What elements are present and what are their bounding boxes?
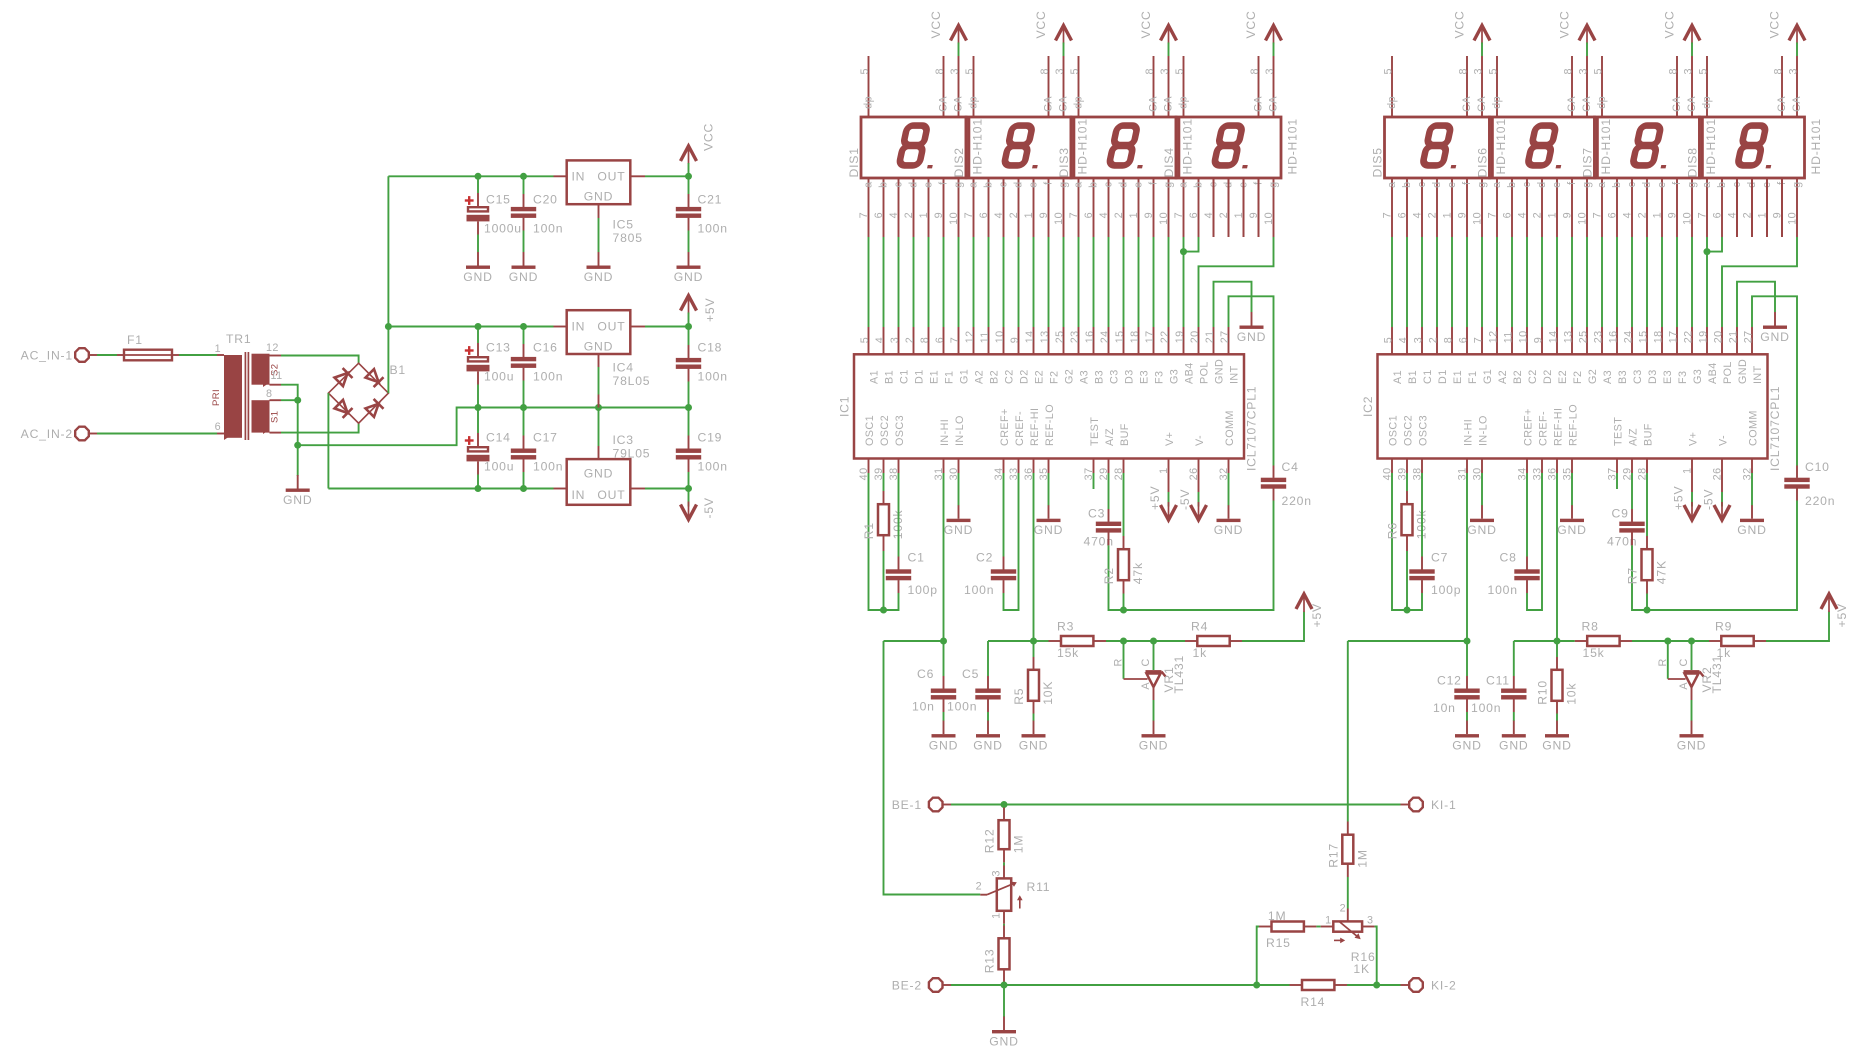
wire — [1513, 641, 1515, 676]
wire — [598, 218, 600, 252]
svg-text:GND: GND — [283, 493, 312, 507]
svg-text:6: 6 — [873, 212, 885, 218]
svg-text:10: 10 — [1577, 212, 1589, 225]
wire — [1692, 640, 1710, 642]
wire — [898, 473, 900, 557]
svg-text:A2: A2 — [973, 370, 985, 384]
svg-text:16: 16 — [1084, 330, 1096, 343]
resistor R14 — [1302, 980, 1334, 990]
junction — [520, 485, 527, 492]
svg-text:3: 3 — [1578, 68, 1590, 74]
svg-text:AC_IN-1: AC_IN-1 — [21, 349, 73, 363]
svg-text:TEST: TEST — [1089, 417, 1101, 446]
junction — [685, 323, 692, 330]
svg-text:g: g — [1163, 182, 1175, 188]
wire — [1737, 282, 1775, 327]
wire segment column — [928, 237, 930, 327]
svg-text:POL: POL — [1198, 361, 1210, 384]
wire — [1153, 700, 1155, 721]
svg-text:GND: GND — [989, 1035, 1018, 1049]
VCC symbol — [1768, 10, 1806, 43]
svg-text:a: a — [1701, 182, 1713, 188]
svg-text:f: f — [1148, 181, 1160, 185]
wire — [281, 423, 359, 432]
VCC symbol — [1453, 10, 1491, 43]
svg-text:b: b — [1088, 182, 1100, 188]
svg-text:BUF: BUF — [1642, 423, 1654, 446]
svg-text:R: R — [1657, 658, 1669, 666]
ground — [944, 505, 973, 537]
svg-text:D3: D3 — [1647, 369, 1659, 384]
capacitor C13 (polarized) — [465, 341, 515, 384]
junction — [475, 173, 482, 180]
svg-text:S1: S1 — [270, 411, 281, 423]
wire segment column — [1616, 237, 1618, 327]
svg-text:220n: 220n — [1282, 494, 1312, 508]
wire — [1466, 473, 1468, 641]
svg-text:6: 6 — [1712, 212, 1724, 218]
svg-text:E1: E1 — [928, 370, 940, 384]
capacitor C21 — [676, 193, 728, 236]
wire — [1781, 178, 1783, 237]
display DIS2 HD-H101 — [952, 56, 1090, 237]
svg-text:HD-H101: HD-H101 — [1076, 118, 1090, 174]
svg-text:1000u: 1000u — [484, 222, 522, 236]
voltage regulator IC4 78L05 — [567, 310, 651, 388]
junction — [685, 173, 692, 180]
svg-text:AB4: AB4 — [1707, 362, 1719, 384]
wire GND mid rail — [457, 407, 689, 409]
svg-text:CA: CA — [938, 96, 950, 112]
ground — [929, 721, 958, 753]
svg-text:POL: POL — [1722, 361, 1734, 384]
svg-text:GND: GND — [1452, 739, 1481, 753]
svg-text:5: 5 — [859, 337, 871, 343]
wire VCC rail — [388, 175, 553, 177]
svg-text:6: 6 — [934, 337, 946, 343]
svg-text:PRI: PRI — [211, 389, 222, 406]
svg-text:4: 4 — [1398, 337, 1410, 343]
wire — [883, 473, 885, 491]
wire segment column — [1646, 237, 1648, 327]
junction — [1030, 638, 1037, 645]
svg-text:OUT: OUT — [597, 320, 625, 334]
svg-text:9: 9 — [1533, 337, 1545, 343]
svg-text:R1: R1 — [862, 522, 876, 539]
svg-text:1: 1 — [1128, 212, 1140, 218]
wire segment column — [1048, 237, 1050, 327]
svg-text:CA: CA — [1461, 96, 1473, 112]
capacitor C15 (polarized) — [465, 193, 522, 236]
svg-text:C19: C19 — [698, 431, 723, 445]
svg-text:e: e — [1028, 182, 1040, 188]
display DIS1 HD-H101 — [847, 56, 985, 237]
wire — [1033, 473, 1035, 641]
wire — [645, 488, 689, 490]
svg-text:21: 21 — [1204, 330, 1216, 343]
junction — [1404, 607, 1411, 614]
svg-text:e: e — [923, 182, 935, 188]
wire — [1481, 473, 1483, 506]
svg-text:10K: 10K — [1041, 681, 1055, 705]
capacitor C17 — [511, 431, 564, 474]
svg-text:C7: C7 — [1431, 551, 1448, 565]
svg-text:9: 9 — [1009, 337, 1021, 343]
junction — [1150, 638, 1157, 645]
wire segment column — [1541, 237, 1543, 327]
svg-text:b: b — [878, 182, 890, 188]
wire — [1736, 178, 1738, 237]
svg-text:c: c — [998, 181, 1010, 187]
junction — [685, 485, 692, 492]
svg-text:18: 18 — [1129, 330, 1141, 343]
svg-text:C5: C5 — [962, 667, 979, 681]
wire — [987, 712, 989, 721]
svg-text:g: g — [1581, 182, 1593, 188]
svg-text:d: d — [1013, 182, 1025, 188]
wire — [1406, 473, 1408, 491]
wire — [688, 231, 690, 253]
svg-text:D1: D1 — [913, 369, 925, 384]
svg-text:INT: INT — [1228, 365, 1240, 384]
wire bridge - output — [327, 393, 329, 488]
wire — [281, 356, 359, 364]
svg-text:b: b — [1401, 182, 1413, 188]
svg-text:C9: C9 — [1612, 507, 1629, 521]
svg-text:A: A — [1140, 682, 1152, 690]
wire segment column — [973, 237, 975, 327]
wire — [1557, 640, 1575, 642]
svg-text:8: 8 — [1668, 68, 1680, 74]
diode (bridge) — [366, 404, 379, 417]
svg-text:HD-H101: HD-H101 — [1599, 118, 1613, 174]
svg-text:IN-LO: IN-LO — [1477, 415, 1489, 446]
wire segment column — [868, 237, 870, 327]
junction — [1120, 638, 1127, 645]
svg-text:2: 2 — [1113, 212, 1125, 218]
svg-text:F3: F3 — [1677, 371, 1689, 384]
svg-text:2: 2 — [903, 212, 915, 218]
svg-text:CA: CA — [1776, 96, 1788, 112]
svg-text:IN: IN — [572, 320, 586, 334]
svg-text:A1: A1 — [1392, 370, 1404, 384]
wire — [1003, 985, 1005, 1017]
wire — [943, 641, 945, 676]
wire — [477, 385, 479, 408]
svg-text:DIS3: DIS3 — [1057, 147, 1071, 177]
wire segment column — [1108, 237, 1110, 327]
svg-text:IC5: IC5 — [613, 218, 634, 232]
svg-text:R3: R3 — [1057, 620, 1074, 634]
svg-text:15k: 15k — [1057, 646, 1079, 660]
wire — [1556, 473, 1558, 641]
svg-text:+5V: +5V — [1148, 486, 1162, 510]
svg-text:C12: C12 — [1437, 674, 1462, 688]
svg-text:100n: 100n — [533, 370, 563, 384]
ground — [989, 1017, 1018, 1049]
svg-text:3: 3 — [1788, 68, 1800, 74]
svg-text:C21: C21 — [698, 193, 723, 207]
junction — [1001, 982, 1008, 989]
+5V symbol — [1821, 594, 1849, 627]
svg-text:f: f — [1461, 181, 1473, 185]
svg-text:C3: C3 — [1088, 507, 1105, 521]
wire — [1766, 612, 1829, 642]
wire — [1168, 492, 1170, 507]
svg-text:GND: GND — [1542, 739, 1571, 753]
svg-text:1: 1 — [1682, 468, 1694, 474]
svg-text:d: d — [1536, 182, 1548, 188]
wire — [688, 472, 690, 489]
svg-text:VCC: VCC — [929, 10, 943, 38]
svg-text:GND: GND — [1467, 523, 1496, 537]
svg-text:9: 9 — [1562, 212, 1574, 218]
svg-text:10n: 10n — [912, 700, 935, 714]
resistor R5 — [1012, 670, 1055, 705]
svg-text:10: 10 — [948, 212, 960, 225]
svg-text:9: 9 — [1143, 212, 1155, 218]
svg-text:IN-HI: IN-HI — [939, 419, 951, 446]
svg-text:D2: D2 — [1542, 369, 1554, 384]
junction — [1001, 801, 1008, 808]
wire — [1033, 641, 1035, 657]
svg-text:A3: A3 — [1078, 370, 1090, 384]
svg-text:-5V: -5V — [1178, 489, 1192, 510]
wire — [1124, 501, 1274, 611]
wire segment column — [1571, 237, 1573, 327]
svg-text:21: 21 — [1728, 330, 1740, 343]
svg-text:GND: GND — [584, 340, 613, 354]
svg-text:C1: C1 — [1422, 369, 1434, 384]
svg-text:C4: C4 — [1282, 460, 1299, 474]
svg-text:100n: 100n — [1488, 583, 1518, 597]
wire — [281, 399, 298, 401]
svg-text:GND: GND — [1019, 739, 1048, 753]
svg-text:CA: CA — [1268, 96, 1280, 112]
bridge rectifier B1 — [328, 363, 406, 423]
svg-text:g: g — [1686, 182, 1698, 188]
wire — [1556, 641, 1558, 657]
svg-text:A/Z: A/Z — [1104, 428, 1116, 446]
wire segment column — [1556, 237, 1558, 327]
capacitor C8 — [1488, 551, 1540, 598]
wire — [1034, 640, 1049, 642]
svg-text:VCC: VCC — [1768, 10, 1782, 38]
svg-text:R4: R4 — [1191, 620, 1208, 634]
wire — [1752, 296, 1797, 465]
wire — [1228, 473, 1230, 506]
connector AC_IN-1 — [21, 348, 89, 362]
svg-text:12: 12 — [266, 342, 279, 354]
svg-text:G1: G1 — [958, 369, 970, 384]
svg-text:g: g — [1268, 182, 1280, 188]
svg-text:R13: R13 — [983, 949, 997, 974]
svg-text:C2: C2 — [1527, 369, 1539, 384]
diode (bridge) — [335, 373, 348, 386]
wire — [523, 231, 525, 253]
svg-text:4: 4 — [1098, 212, 1110, 218]
wire segment column — [988, 237, 990, 327]
svg-text:c: c — [1416, 181, 1428, 187]
VCC symbol — [1558, 10, 1596, 43]
svg-text:a: a — [1073, 182, 1085, 188]
wire BE-2 to KI-2 — [951, 984, 1290, 986]
wire — [1168, 43, 1170, 57]
svg-text:AC_IN-2: AC_IN-2 — [21, 427, 73, 441]
svg-text:VCC: VCC — [1453, 10, 1467, 38]
svg-text:E2: E2 — [1033, 370, 1045, 384]
svg-text:G3: G3 — [1168, 369, 1180, 384]
svg-text:6: 6 — [1188, 212, 1200, 218]
svg-text:22: 22 — [1683, 330, 1695, 343]
wire — [968, 117, 971, 178]
capacitor C19 — [676, 431, 728, 474]
svg-text:KI-1: KI-1 — [1431, 798, 1457, 812]
svg-text:3: 3 — [1159, 68, 1171, 74]
wire — [477, 475, 479, 489]
svg-text:V+: V+ — [1687, 432, 1699, 446]
junction — [685, 404, 692, 411]
svg-text:a: a — [1491, 182, 1503, 188]
resistor R7 — [1626, 549, 1669, 584]
wire — [1407, 593, 1422, 610]
svg-text:E2: E2 — [1557, 370, 1569, 384]
svg-text:CA: CA — [1581, 96, 1593, 112]
wire left column to pot wiper — [884, 641, 981, 895]
svg-text:CA: CA — [953, 96, 965, 112]
svg-text:8: 8 — [1144, 68, 1156, 74]
wire — [688, 176, 690, 194]
svg-text:9: 9 — [933, 212, 945, 218]
junction — [520, 323, 527, 330]
wire — [1616, 473, 1618, 489]
wire — [1153, 641, 1155, 670]
wire segment column — [1078, 237, 1080, 327]
svg-text:C20: C20 — [533, 193, 558, 207]
VCC symbol — [1034, 10, 1072, 43]
wire segment column — [1391, 237, 1393, 327]
svg-text:R5: R5 — [1012, 688, 1026, 705]
svg-text:dp: dp — [1701, 96, 1713, 109]
svg-text:IN-HI: IN-HI — [1462, 419, 1474, 446]
wire segment column — [883, 237, 885, 327]
wire — [1766, 178, 1768, 237]
wire — [1691, 641, 1693, 670]
svg-text:C3: C3 — [1108, 369, 1120, 384]
wire R15 branch — [1257, 927, 1259, 986]
IC IC2 ICL7107CPL1 — [1361, 327, 1782, 480]
svg-text:2: 2 — [904, 337, 916, 343]
svg-text:8: 8 — [1249, 68, 1261, 74]
svg-text:+5V: +5V — [1672, 486, 1686, 510]
svg-text:CREF+: CREF+ — [1522, 408, 1534, 446]
svg-text:B1: B1 — [1407, 370, 1419, 384]
wire — [987, 641, 989, 676]
svg-text:b: b — [1611, 182, 1623, 188]
wire segment column — [1421, 237, 1423, 327]
svg-text:A/Z: A/Z — [1627, 428, 1639, 446]
wire segment column — [1406, 237, 1408, 327]
svg-text:F3: F3 — [1153, 371, 1165, 384]
wire — [1691, 700, 1693, 721]
wire — [1316, 926, 1320, 928]
svg-text:17: 17 — [1668, 330, 1680, 343]
ground — [1542, 721, 1571, 753]
wire — [1063, 43, 1065, 57]
wire — [1123, 473, 1125, 536]
wire segment column — [1093, 237, 1095, 327]
svg-text:8: 8 — [1563, 68, 1575, 74]
ground — [463, 252, 492, 284]
svg-text:c: c — [893, 181, 905, 187]
svg-text:ICL7107CPL1: ICL7107CPL1 — [1768, 386, 1782, 471]
svg-text:GND: GND — [674, 270, 703, 284]
wire — [1392, 473, 1407, 610]
svg-text:24: 24 — [1099, 330, 1111, 343]
svg-text:E3: E3 — [1662, 370, 1674, 384]
wire segment column — [1436, 237, 1438, 327]
svg-text:DIS4: DIS4 — [1162, 147, 1176, 177]
svg-text:f: f — [1043, 181, 1055, 185]
svg-text:8: 8 — [1458, 68, 1470, 74]
svg-text:7: 7 — [1382, 212, 1394, 218]
svg-text:CA: CA — [1566, 96, 1578, 112]
svg-text:7805: 7805 — [613, 231, 643, 245]
wire — [523, 408, 525, 436]
svg-text:dp: dp — [1596, 96, 1608, 109]
svg-text:f: f — [938, 181, 950, 185]
svg-text:BUF: BUF — [1119, 423, 1131, 446]
svg-text:dp: dp — [1178, 96, 1190, 109]
ground — [509, 252, 538, 284]
svg-text:e: e — [1446, 182, 1458, 188]
svg-text:C11: C11 — [1486, 674, 1510, 688]
wire — [523, 176, 525, 194]
connector KI-2 — [1409, 978, 1456, 992]
svg-text:1: 1 — [918, 212, 930, 218]
voltage regulator IC3 79L05 — [567, 433, 651, 505]
wire — [1229, 296, 1274, 465]
display DIS3 HD-H101 — [1057, 56, 1195, 237]
svg-text:100n: 100n — [698, 370, 728, 384]
svg-text:HD-H101: HD-H101 — [1704, 118, 1718, 174]
svg-text:REF-LO: REF-LO — [1044, 404, 1056, 446]
wire — [1347, 984, 1377, 986]
wire segment column — [1631, 237, 1633, 327]
svg-text:4: 4 — [888, 212, 900, 218]
wire — [688, 313, 690, 327]
junction — [1464, 638, 1471, 645]
svg-text:2: 2 — [1532, 212, 1544, 218]
svg-text:AB4: AB4 — [1183, 362, 1195, 384]
svg-text:220n: 220n — [1805, 494, 1835, 508]
svg-text:HD-H101: HD-H101 — [1286, 118, 1300, 174]
svg-text:DIS5: DIS5 — [1371, 147, 1385, 177]
junction — [1554, 638, 1561, 645]
svg-text:6: 6 — [978, 212, 990, 218]
wire — [1706, 237, 1708, 327]
wire — [1178, 117, 1181, 178]
svg-text:100p: 100p — [1431, 583, 1461, 597]
fuse F1 — [90, 333, 172, 360]
capacitor C3 — [1084, 507, 1122, 549]
svg-text:IN: IN — [572, 488, 586, 502]
svg-text:16: 16 — [1608, 330, 1620, 343]
wire segment column — [1586, 237, 1588, 327]
svg-text:3: 3 — [1264, 68, 1276, 74]
svg-text:2: 2 — [1637, 212, 1649, 218]
svg-text:G1: G1 — [1482, 369, 1494, 384]
